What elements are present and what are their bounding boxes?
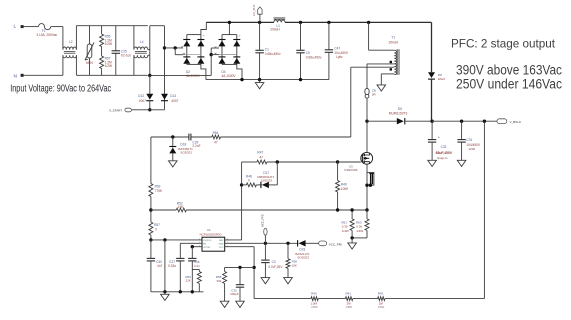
gnd stem — [164, 292, 166, 295]
wire current sense line — [186, 209, 367, 211]
resistor R55 — [100, 34, 104, 47]
AC stub to bridge D2 upper — [165, 47, 184, 49]
wire top rail to L4 — [133, 26, 135, 50]
resistor R54 — [212, 135, 221, 139]
wire R55 to R57 — [101, 47, 103, 57]
wire down to L2 top winding — [62, 27, 64, 50]
wire C47 to gnd rail — [328, 52, 330, 79]
port VCC_PRI — [319, 241, 327, 246]
DC bus rail left of L1 — [206, 21, 273, 23]
wire to C27 — [179, 243, 181, 258]
wire IC FB pin — [180, 242, 202, 244]
wire source sense loop — [367, 172, 374, 185]
svg-text:1/4W: 1/4W — [356, 229, 363, 233]
junction bridge D4 + — [228, 21, 231, 24]
wire varistor to bottom rail — [89, 58, 91, 75]
wire DRV vertical — [241, 162, 243, 240]
wire C27 to gnd rail — [179, 261, 181, 292]
svg-text:X2-1u0: X2-1u0 — [121, 54, 132, 58]
svg-text:VCC: VCC — [219, 247, 224, 249]
varistor RV1 — [87, 44, 92, 58]
wire FB vertical — [253, 247, 255, 299]
gnd stem — [259, 80, 261, 83]
wire chain vertical — [150, 137, 152, 184]
svg-text:2.2nF: 2.2nF — [192, 144, 200, 148]
op-amp U4 controller — [202, 237, 225, 251]
wire bridge D2 positive output — [201, 22, 206, 34]
svg-text:0: 0 — [155, 227, 157, 231]
svg-text:0.33u: 0.33u — [168, 264, 176, 268]
wire D18 to gnd — [172, 153, 174, 160]
svg-text:775K: 775K — [155, 189, 163, 193]
wire D13 to start line — [164, 94, 166, 110]
capacitor C32 — [428, 139, 436, 141]
svg-text:0.68u,450v: 0.68u,450v — [265, 52, 281, 56]
wire C29 to chain — [151, 136, 189, 138]
ground sense — [348, 243, 357, 249]
wire L2 to bottom rail — [75, 55, 77, 75]
bridge D4 lower AC crossover — [219, 54, 237, 56]
svg-text:R54: R54 — [213, 131, 219, 135]
svg-text:T1: T1 — [391, 36, 395, 40]
stub to R56 — [192, 269, 199, 271]
bridge rectifier D4 — [222, 34, 237, 36]
svg-text:L: L — [14, 24, 17, 30]
svg-text:4n7: 4n7 — [157, 264, 163, 268]
wire ZCD horizontal — [221, 136, 351, 138]
ground R36 — [284, 278, 293, 284]
svg-text:68uF,450V: 68uF,450V — [436, 151, 453, 155]
wire to R50 — [366, 210, 368, 219]
wire to C25 — [115, 26, 117, 51]
svg-text:+: + — [239, 34, 241, 38]
wire R53 to R57b — [150, 197, 152, 223]
junction VCTRL — [191, 245, 194, 248]
svg-text:MOV: MOV — [86, 61, 94, 65]
wire C31 to gnd — [461, 142, 463, 160]
junction L feed — [163, 46, 166, 49]
wire to R48 — [242, 184, 247, 186]
svg-text:250V under 146Vac: 250V under 146Vac — [456, 77, 562, 92]
wire C40 to gnd rail — [150, 261, 152, 292]
capacitor C1 — [255, 49, 263, 51]
svg-text:U4: U4 — [207, 228, 211, 232]
AC mark — [181, 46, 183, 48]
wire fuse to choke — [51, 26, 63, 28]
svg-text:100K: 100K — [341, 187, 349, 191]
svg-text:GND: GND — [219, 244, 224, 246]
ground R58 — [220, 301, 229, 307]
svg-text:MURS160T3: MURS160T3 — [389, 112, 408, 116]
port V_BULK — [497, 119, 507, 124]
wire R47 to gate node — [267, 161, 338, 163]
AC stub to bridge D2 lower — [175, 54, 183, 56]
wire ZCD vertical — [350, 67, 352, 137]
wire source — [366, 164, 368, 210]
svg-text:PFC: 2 stage output: PFC: 2 stage output — [451, 36, 556, 50]
wire to D18 — [172, 137, 174, 148]
junction gnd branch — [163, 238, 166, 241]
wire start line — [131, 109, 164, 111]
primary ground rail — [206, 79, 329, 81]
svg-text:104/450V: 104/450V — [466, 143, 481, 147]
capacitor C29 — [188, 134, 190, 141]
svg-text:NCP1602D5R2G: NCP1602D5R2G — [200, 233, 223, 237]
svg-text:2.2n: 2.2n — [194, 264, 200, 268]
wire VCC to R36 — [287, 243, 289, 258]
junction gnd C1 — [258, 78, 261, 81]
junction N feed — [210, 53, 213, 56]
svg-text:1/8W: 1/8W — [346, 305, 353, 309]
resistor R51 — [350, 219, 354, 231]
wire VCC pin to D23 — [225, 242, 299, 244]
junction C1 / HV port — [258, 21, 261, 24]
wire N terminal to choke — [24, 74, 63, 76]
wire VCC_PFC stem — [264, 235, 266, 243]
resistor R58 — [223, 272, 227, 284]
svg-text:R42: R42 — [378, 292, 384, 296]
svg-text:X_START: X_START — [109, 108, 122, 112]
wire L2 to top rail — [75, 26, 77, 50]
resistor R42 — [378, 297, 385, 301]
svg-text:K3NK60Z: K3NK60Z — [344, 168, 357, 172]
svg-text:0.68u,450v: 0.68u,450v — [306, 56, 322, 60]
diode D13 — [161, 94, 168, 100]
junction feedback tap — [483, 120, 486, 123]
junction gate parallel — [276, 160, 279, 163]
ground C31 — [457, 160, 466, 166]
wire C3 to gnd — [264, 263, 266, 278]
svg-text:D5: D5 — [398, 107, 402, 111]
svg-text:C32: C32 — [441, 145, 447, 149]
capacitor C30 — [236, 284, 244, 286]
wire gate to R49 — [337, 162, 339, 181]
diode D5 — [397, 118, 404, 124]
port X_START — [125, 108, 131, 112]
svg-text:-: - — [203, 63, 204, 67]
resistor R57 — [100, 56, 104, 69]
ground IC — [161, 294, 170, 300]
wire bulk to feedback divider — [483, 121, 485, 298]
junction C5 — [299, 21, 302, 24]
wire HV port stem — [259, 14, 261, 22]
wire to T1 top — [369, 49, 395, 51]
junction C3 — [264, 242, 267, 245]
resistor R41 — [345, 297, 352, 301]
wire divider row — [254, 298, 311, 300]
wire drain — [366, 121, 368, 152]
svg-text:CS/ZCD: CS/ZCD — [203, 240, 212, 242]
wire C32 to gnd — [431, 142, 433, 160]
svg-text:R53: R53 — [155, 184, 161, 188]
svg-text:D12: D12 — [138, 94, 144, 98]
wire R36 to gnd — [287, 268, 289, 277]
junction N line — [148, 74, 151, 77]
wire D12 cathode — [149, 101, 151, 110]
wire parallel branch up — [276, 162, 278, 185]
junction R36 — [286, 242, 289, 245]
resistor R49 — [336, 181, 340, 193]
L feed vertical — [164, 26, 166, 94]
wire D8 to bulk node — [431, 79, 433, 121]
junction D18 — [171, 135, 174, 138]
junction R49 source — [336, 208, 339, 211]
wire C25 to bottom rail — [115, 53, 117, 75]
capacitor C3 — [261, 259, 269, 261]
zener D18 — [169, 146, 176, 148]
resistor R57b — [149, 222, 153, 235]
wire bus to D8 — [431, 22, 433, 72]
wire C1 to gnd rail — [259, 53, 261, 80]
svg-text:4007: 4007 — [171, 99, 178, 103]
wire R40 to R41 — [318, 298, 345, 300]
diode D23 — [299, 240, 306, 246]
wire to C5 — [300, 22, 302, 50]
top rail jog to bridge feed — [150, 25, 165, 27]
svg-text:4007: 4007 — [139, 99, 146, 103]
wire T1 bottom aux return — [381, 73, 394, 75]
svg-text:3.15A, 250Vac: 3.15A, 250Vac — [36, 33, 57, 37]
svg-text:200uH: 200uH — [389, 41, 399, 45]
wire R57 to bottom rail — [101, 69, 103, 76]
resistor R56 — [197, 272, 201, 284]
svg-text:+: + — [203, 34, 205, 38]
svg-text:200uH: 200uH — [270, 28, 280, 32]
capacitor C5 — [296, 49, 304, 51]
wire FB pin — [225, 246, 254, 248]
svg-text:C31: C31 — [466, 138, 472, 142]
svg-text:47: 47 — [214, 141, 218, 145]
wire R42 to bulk tap — [385, 298, 484, 300]
wire bulk bus — [432, 120, 497, 122]
bridge D2 lower AC crossover — [183, 54, 201, 56]
wire to R51 — [351, 210, 353, 219]
junction C31 — [460, 120, 463, 123]
svg-text:1/2W: 1/2W — [105, 42, 112, 46]
wire bridge D4 positive output — [228, 22, 230, 34]
svg-text:100pF: 100pF — [230, 292, 239, 296]
jumper bar JP — [370, 173, 372, 184]
svg-text:4A,1000V: 4A,1000V — [186, 74, 201, 78]
wire R41 to R42 — [353, 298, 378, 300]
svg-text:R47: R47 — [257, 150, 263, 154]
svg-text:1/8W: 1/8W — [378, 305, 385, 309]
wire R50 to gnd bar — [366, 230, 368, 238]
junction AC stub — [174, 46, 177, 49]
wire T1 tap to drain — [367, 63, 394, 65]
svg-text:1/4W: 1/4W — [342, 229, 349, 233]
transformer T1 — [394, 50, 396, 74]
svg-text:4A,1000V: 4A,1000V — [222, 74, 237, 78]
wire up to L2 bottom winding — [62, 55, 64, 75]
wire FB filter branch — [225, 266, 255, 268]
wire to C1 — [259, 22, 261, 50]
wire N to D12 — [149, 75, 151, 93]
wire to R47 — [242, 161, 257, 163]
bridge rectifier D2 — [187, 34, 201, 36]
svg-text:D18: D18 — [180, 142, 186, 146]
resistor R53 — [149, 184, 153, 197]
svg-text:L4: L4 — [140, 40, 144, 44]
fuse F1 — [39, 24, 51, 30]
svg-text:47: 47 — [259, 155, 263, 159]
junction gnd C5 — [299, 78, 302, 81]
ground C30 — [236, 301, 245, 307]
svg-text:-: - — [239, 63, 240, 67]
AC mark — [215, 46, 217, 48]
AC stub to bridge D4 lower — [211, 54, 219, 56]
AC stub drop — [174, 48, 176, 55]
port VCC_PFC — [264, 228, 267, 235]
N line to bridge 2 feed — [150, 74, 211, 76]
svg-text:N: N — [14, 73, 18, 79]
svg-text:R49: R49 — [341, 183, 347, 187]
junction sense gnd — [350, 236, 353, 239]
wire C30 to gnd — [239, 287, 241, 301]
svg-text:39k: 39k — [217, 279, 222, 283]
svg-text:C5: C5 — [306, 51, 310, 55]
svg-text:SOD323: SOD323 — [297, 255, 309, 259]
filter top rail — [76, 25, 147, 27]
wire sense gnd bar — [352, 237, 367, 239]
capacitor C27 — [176, 257, 184, 259]
wire to IC pin CS — [151, 239, 202, 241]
svg-text:0: 0 — [248, 178, 250, 182]
svg-text:10K: 10K — [292, 264, 297, 268]
resistor R47 — [257, 160, 267, 164]
junction R48 branch — [240, 183, 243, 186]
junction bridge D4 - — [240, 78, 243, 81]
svg-text:22K: 22K — [186, 279, 191, 283]
junction source loop — [365, 184, 368, 187]
svg-text:R41: R41 — [346, 292, 352, 296]
junction C47 — [327, 21, 330, 24]
wire DRV pin — [225, 239, 242, 241]
ground — [255, 83, 264, 89]
wire gate to MOSFET — [338, 161, 361, 163]
svg-text:4.7uF,25V: 4.7uF,25V — [268, 265, 283, 269]
svg-text:VCC_PFC: VCC_PFC — [260, 214, 264, 227]
wire to R58 — [224, 267, 226, 271]
wire VCC to C3 — [264, 243, 266, 260]
junction CS divider — [149, 208, 152, 211]
capacitor C31 — [457, 139, 465, 141]
wire bus to T1 — [368, 22, 370, 50]
wire IC VCTRL pin — [192, 246, 202, 248]
svg-text:1/2W: 1/2W — [105, 64, 112, 68]
wire R54 to C29 — [191, 136, 212, 138]
diode D17 — [262, 182, 269, 188]
svg-text:L2: L2 — [69, 40, 73, 44]
wire C46 to gnd rail — [191, 261, 193, 292]
wire ZB to drain node — [366, 98, 368, 121]
capacitor C40 — [147, 257, 155, 259]
wire T1 tap ZCD — [351, 66, 395, 68]
wire bridge D4 negative output — [237, 64, 242, 79]
capacitor C46 — [188, 257, 196, 259]
svg-text:Input Voltage: 90Vac to 264Vac: Input Voltage: 90Vac to 264Vac — [10, 84, 111, 95]
junction gnd rail — [163, 290, 166, 293]
resistor R52 — [176, 208, 186, 212]
diode D8 — [428, 72, 435, 78]
wire to C30 — [239, 267, 241, 284]
wire L4 right vertical — [149, 26, 151, 76]
common-mode choke L2 — [63, 47, 77, 50]
svg-text:Snap-In: Snap-In — [437, 156, 448, 160]
svg-text:DRV: DRV — [219, 240, 224, 242]
transistor U3 MOSFET — [361, 152, 373, 164]
ground aux — [377, 85, 386, 91]
common-mode choke L4 — [134, 47, 148, 50]
ground D18 — [169, 161, 178, 167]
svg-text:ES2J: ES2J — [438, 77, 446, 81]
svg-text:C1: C1 — [265, 47, 269, 51]
wire to C47 — [328, 22, 330, 49]
AC mark — [183, 53, 185, 55]
capacitor C25 — [112, 50, 120, 52]
junction gate — [336, 160, 339, 163]
wire to varistor RV1 — [89, 26, 91, 44]
wire to R55 — [101, 26, 103, 34]
svg-text:VCTRL: VCTRL — [203, 247, 211, 249]
wire IC gnd vertical — [164, 240, 166, 292]
svg-text:+: + — [438, 136, 440, 140]
svg-text:390V above 163Vac: 390V above 163Vac — [456, 63, 562, 78]
wire L4 to bottom rail — [133, 55, 135, 75]
ground C3 — [261, 278, 270, 284]
wire D17 to gate node — [269, 184, 277, 186]
L4 stub bottom — [148, 54, 150, 56]
junction R51 — [350, 208, 353, 211]
wire D5 to bulk node — [405, 120, 432, 122]
svg-text:HV_BUS: HV_BUS — [252, 4, 256, 15]
resistor R50 — [365, 219, 369, 231]
port HV_BUS — [258, 7, 262, 14]
jumper ZB — [365, 89, 369, 95]
diode D12 — [146, 94, 153, 100]
wire aux return to gnd — [380, 74, 382, 85]
resistor R40 — [311, 297, 318, 301]
junction source sense — [365, 208, 368, 211]
AC stub to bridge D4 upper — [211, 47, 219, 49]
DC bus rail right of L1 — [285, 21, 432, 23]
svg-text:VCC_PRI: VCC_PRI — [329, 242, 342, 246]
junction FB filter — [252, 266, 255, 269]
L4 stub top — [148, 49, 150, 51]
svg-text:V_BULK: V_BULK — [510, 120, 522, 124]
wire to R52 — [151, 209, 176, 211]
N feed vertical to bridge D4 — [210, 48, 212, 75]
svg-text:C3: C3 — [272, 260, 276, 264]
wire bulk to C32 — [431, 121, 433, 139]
wire R56 to gnd rail — [198, 284, 200, 292]
wire tap down to ZB — [366, 64, 368, 89]
svg-text:SOD323: SOD323 — [180, 150, 192, 154]
svg-text:1206: 1206 — [468, 147, 475, 151]
ground rail under IC — [151, 291, 204, 293]
resistor R48 — [246, 183, 256, 187]
svg-text:R57: R57 — [154, 223, 160, 227]
junction pin1 node — [149, 238, 152, 241]
svg-text:D13: D13 — [170, 94, 176, 98]
junction C30 — [238, 266, 241, 269]
wire bridge D2 negative output — [201, 64, 206, 79]
wire R51 to gnd bar — [351, 230, 353, 238]
svg-text:Lytic: Lytic — [336, 55, 343, 59]
wire bulk to C31 — [461, 121, 463, 139]
wire R57b to pin wire — [150, 235, 152, 240]
wire R48 to D17 — [256, 184, 262, 186]
